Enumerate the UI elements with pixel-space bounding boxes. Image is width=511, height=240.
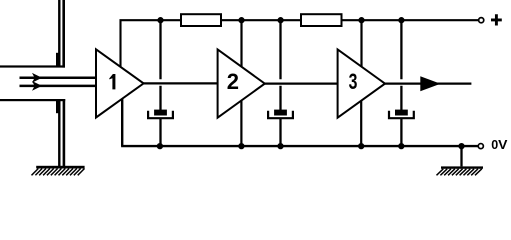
svg-text:0: 0 bbox=[491, 138, 498, 152]
svg-text:3: 3 bbox=[349, 69, 358, 94]
svg-text:2: 2 bbox=[227, 69, 239, 94]
svg-text:V: V bbox=[498, 138, 508, 152]
